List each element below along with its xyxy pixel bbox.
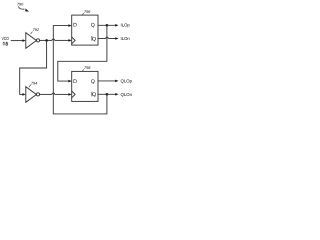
pin D2	[73, 79, 77, 85]
svg-text:792: 792	[33, 28, 40, 32]
svg-text:796: 796	[84, 10, 91, 14]
svg-text:794: 794	[31, 81, 37, 85]
label QLOn	[121, 92, 133, 97]
label 796	[84, 10, 91, 14]
svg-text:VCO: VCO	[2, 36, 10, 41]
svg-text:Q: Q	[91, 79, 95, 85]
buffer U794 triangle	[26, 87, 37, 103]
pin D1	[73, 23, 77, 29]
svg-text:Q: Q	[92, 36, 96, 42]
svg-text:Q: Q	[91, 23, 95, 29]
junction dot ILOp / net V	[106, 24, 109, 27]
wire QLOp output	[98, 80, 116, 82]
svg-text:QLOn: QLOn	[121, 92, 133, 97]
pin Q1	[91, 23, 95, 29]
label 792	[33, 28, 40, 32]
wire QLOn output	[98, 93, 116, 95]
flip-flop U798 box	[72, 71, 98, 101]
junction dot clock1 / branch A	[45, 39, 48, 42]
junction dot QLOn / net B	[106, 93, 109, 96]
wire ILOp output	[98, 24, 116, 26]
svg-text:ILOn: ILOn	[121, 36, 131, 41]
label 798	[84, 66, 91, 70]
svg-text:Q: Q	[92, 92, 96, 98]
pin Q2	[91, 79, 95, 85]
wire branch A: clock node down, left, down to buffer 794 input	[20, 40, 47, 94]
leader 796	[82, 13, 84, 15]
buffer U794 output bubble	[36, 93, 39, 96]
leader 798	[82, 70, 84, 72]
wire clock1: bubble to FF1 clk with hop over net B	[40, 39, 52, 41]
FF2 clock pin triangle	[72, 91, 75, 98]
label VCO	[2, 36, 10, 41]
svg-text:790: 790	[17, 2, 24, 6]
leader 792	[31, 32, 33, 34]
wire net B: QLOn down, left, up to D1	[53, 26, 107, 114]
label QLOp	[121, 78, 133, 83]
flip-flop U796 box	[72, 15, 98, 45]
wire clock2: bubble to FF2 clk with hop over net B	[40, 93, 52, 95]
label ILOp	[121, 23, 131, 28]
FF1 clock pin triangle	[72, 37, 75, 44]
buffer U792 triangle	[26, 33, 37, 49]
label 794	[31, 81, 37, 85]
label 790	[17, 2, 24, 6]
svg-text:QLOp: QLOp	[121, 78, 133, 83]
wire ILOn output with hop over net V	[98, 38, 106, 40]
svg-text:798: 798	[84, 66, 91, 70]
wire VCO input	[11, 40, 23, 42]
label ILOn	[121, 36, 131, 41]
pin Q2 bar (rotated)	[92, 92, 96, 98]
svg-text:D: D	[73, 23, 77, 29]
leader arrow for 790	[18, 6, 24, 9]
pin Q1 bar (rotated)	[92, 36, 96, 42]
label signal (korean)	[3, 42, 8, 46]
svg-text:D: D	[73, 79, 77, 85]
wire net V: Q1 down to D2	[58, 25, 107, 81]
leader 794	[29, 85, 31, 88]
svg-text:ILOp: ILOp	[121, 23, 131, 28]
buffer U792 output bubble	[36, 39, 39, 42]
